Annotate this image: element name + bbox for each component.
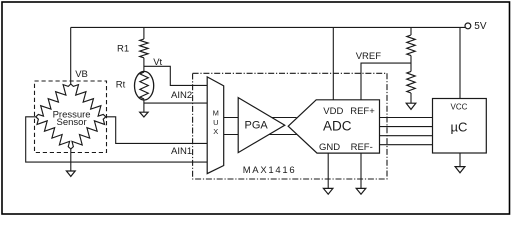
svg-text:M: M bbox=[213, 109, 219, 118]
svg-text:R1: R1 bbox=[117, 44, 129, 55]
svg-text:AIN2: AIN2 bbox=[171, 90, 192, 101]
svg-text:5V: 5V bbox=[474, 21, 487, 32]
svg-text:Vt: Vt bbox=[153, 57, 162, 68]
svg-text:PGA: PGA bbox=[245, 120, 269, 132]
svg-text:VREF: VREF bbox=[356, 51, 382, 62]
svg-text:REF+: REF+ bbox=[350, 106, 375, 117]
svg-text:Rt: Rt bbox=[116, 80, 126, 91]
svg-text:X: X bbox=[213, 127, 218, 136]
svg-text:GND: GND bbox=[319, 142, 340, 153]
svg-text:ADC: ADC bbox=[323, 118, 352, 133]
svg-text:REF-: REF- bbox=[351, 142, 373, 153]
svg-text:AIN1: AIN1 bbox=[171, 146, 192, 157]
svg-text:VDD: VDD bbox=[323, 106, 343, 117]
svg-text:VB: VB bbox=[75, 69, 88, 80]
svg-text:VCC: VCC bbox=[451, 103, 468, 112]
svg-text:MAX1416: MAX1416 bbox=[243, 165, 297, 176]
svg-text:Sensor: Sensor bbox=[57, 117, 87, 128]
svg-text:µC: µC bbox=[450, 119, 467, 134]
svg-text:U: U bbox=[213, 118, 218, 127]
